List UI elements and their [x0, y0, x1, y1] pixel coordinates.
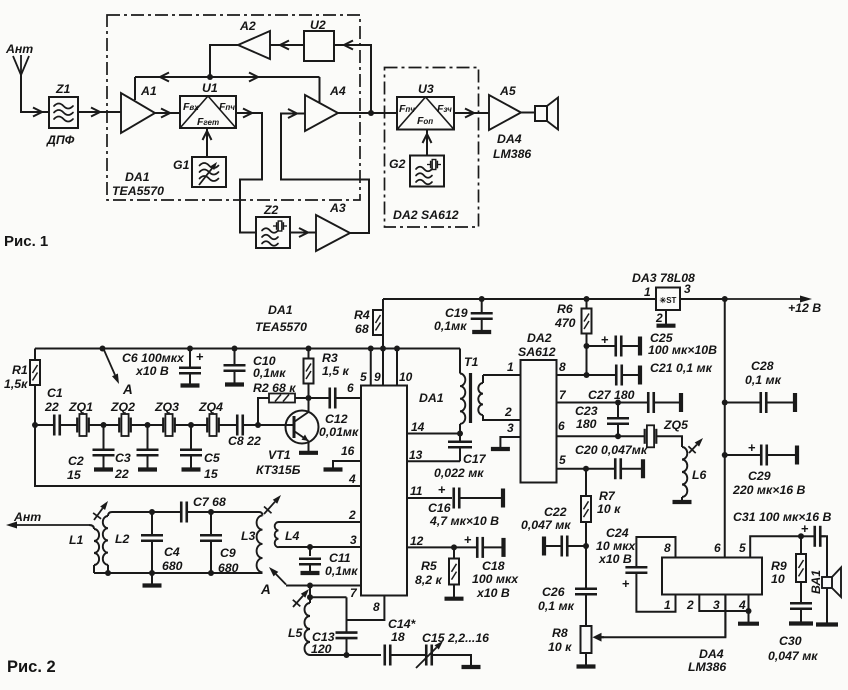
crystal ZQ1	[76, 418, 78, 433]
A arrow at heterodyne tank	[276, 574, 286, 584]
+12V vertical feed	[724, 299, 726, 558]
transistor VT1 КТ315Б	[286, 411, 319, 444]
svg-text:3: 3	[684, 282, 691, 296]
svg-text:С29: С29	[748, 469, 771, 483]
coil L5	[309, 597, 311, 603]
svg-text:U3: U3	[418, 82, 434, 96]
svg-text:1: 1	[507, 360, 514, 374]
wire Z1 to A1	[78, 111, 121, 113]
svg-text:+12 В: +12 В	[788, 301, 821, 315]
svg-text:С28: С28	[751, 359, 774, 373]
wire A4 to U3, output node	[338, 112, 397, 114]
svg-text:С14*: С14*	[388, 617, 417, 631]
svg-text:ZQ2: ZQ2	[110, 400, 135, 414]
svg-text:A1: A1	[140, 84, 157, 98]
svg-text:4: 4	[738, 598, 746, 612]
svg-text:Fпч: Fпч	[399, 103, 415, 115]
svg-text:L3: L3	[241, 529, 256, 543]
svg-text:Fзч: Fзч	[437, 103, 452, 115]
wire U3 to A5	[454, 112, 489, 114]
node R3/R2/C12/collector	[306, 395, 312, 401]
filter Z2	[256, 217, 290, 248]
svg-text:15: 15	[204, 467, 218, 481]
node to L5 and C13	[307, 583, 313, 589]
svg-text:0,022 мк: 0,022 мк	[434, 466, 484, 480]
DA3 78L08 box	[656, 288, 680, 311]
svg-text:10: 10	[399, 370, 413, 384]
svg-text:120: 120	[311, 642, 332, 656]
svg-text:0,1мк: 0,1мк	[253, 366, 286, 380]
resistor R4 68	[382, 299, 384, 310]
wire G1 to U1 (arrow up)	[206, 128, 208, 157]
svg-text:Fоп: Fоп	[417, 115, 433, 127]
resistor R2 68к	[258, 398, 269, 425]
svg-text:С16: С16	[428, 501, 451, 515]
capacitor C10 0,1мк	[232, 346, 238, 352]
svg-text:Fгет: Fгет	[197, 116, 219, 128]
wire A1 to U1	[155, 112, 180, 114]
capacitor C8 22	[236, 415, 239, 436]
node C3, capacitor C3 22	[145, 422, 151, 428]
svg-text:6: 6	[347, 381, 354, 395]
node A arrow near ZQ2	[100, 346, 106, 352]
svg-text:2: 2	[686, 598, 694, 612]
svg-text:Рис. 1: Рис. 1	[4, 233, 48, 250]
svg-text:0,1мк: 0,1мк	[325, 564, 358, 578]
svg-text:4,7 мк×10 В: 4,7 мк×10 В	[429, 514, 499, 528]
capacitor C25 100мкх10В	[587, 345, 617, 347]
svg-text:С8 22: С8 22	[228, 434, 261, 448]
pin 8 and C24 loop	[636, 537, 675, 567]
speaker (fig1)	[521, 112, 535, 114]
pin 5 wire of DA2 / node	[557, 468, 587, 470]
svg-text:R3: R3	[322, 351, 338, 365]
crystal filter input line y=425	[32, 422, 38, 428]
capacitor C11 0,1мк	[307, 544, 313, 550]
svg-text:LM386: LM386	[688, 660, 726, 674]
coil L2	[108, 512, 112, 516]
pin 4 ground	[748, 595, 750, 623]
svg-text:R4: R4	[354, 308, 370, 322]
wire R8 wiper to DA4 pin 3	[600, 595, 725, 638]
capacitor C31 100мкх16В	[798, 533, 804, 539]
pin 2 ground DA3	[665, 310, 667, 324]
svg-text:100 мк×10В: 100 мк×10В	[648, 343, 717, 357]
svg-text:х10 В: х10 В	[135, 364, 169, 378]
svg-text:+: +	[438, 482, 446, 497]
svg-text:0,1 мк: 0,1 мк	[538, 599, 575, 613]
svg-text:G1: G1	[173, 158, 190, 172]
svg-text:С6 100мкх: С6 100мкх	[122, 351, 185, 365]
oscillator G2	[410, 156, 444, 187]
svg-text:DA2 SA612: DA2 SA612	[393, 208, 459, 222]
pin 4 / long ground-return rail	[35, 425, 361, 486]
svg-text:DA4: DA4	[699, 647, 724, 661]
amplifier A4	[305, 95, 338, 131]
svg-text:С27 180: С27 180	[588, 388, 635, 402]
coil L6	[682, 447, 687, 497]
svg-text:0,1мк: 0,1мк	[434, 319, 467, 333]
svg-text:С26: С26	[542, 585, 565, 599]
capacitor C14* 18	[383, 645, 386, 666]
svg-text:С22: С22	[544, 505, 567, 519]
svg-text:3: 3	[713, 598, 720, 612]
svg-text:Ант: Ант	[5, 42, 33, 56]
wire ZQ5 to L6	[656, 436, 682, 447]
pin 3 wire down	[724, 595, 726, 638]
svg-text:14: 14	[411, 420, 425, 434]
pin 12 node	[407, 546, 454, 548]
svg-text:12: 12	[410, 534, 424, 548]
capacitor C7 68	[180, 502, 183, 523]
svg-text:U2: U2	[310, 18, 326, 32]
pin 2 wire and coil L4	[279, 521, 362, 523]
wire A2 output to node	[210, 45, 238, 77]
svg-text:3: 3	[350, 533, 357, 547]
svg-text:VT1: VT1	[268, 448, 291, 462]
svg-text:+: +	[464, 532, 472, 547]
resistor R3 1,5к	[306, 346, 312, 352]
svg-text:1: 1	[664, 598, 671, 612]
svg-text:0,047 мк: 0,047 мк	[768, 649, 818, 663]
capacitor C29 220мкх16В	[722, 452, 728, 458]
svg-text:8: 8	[373, 600, 380, 614]
svg-text:L5: L5	[288, 626, 303, 640]
capacitor C6 100мкх10В	[187, 346, 193, 352]
svg-text:1,5к: 1,5к	[4, 377, 28, 391]
capacitor C21 0,1мк	[587, 374, 617, 376]
supply rail 8V from R4 to DA3 (fig2)	[383, 298, 656, 300]
pin 8 wire / node	[557, 374, 587, 376]
crystal ZQ5	[644, 429, 646, 444]
svg-text:5: 5	[559, 453, 566, 467]
node C4, capacitor C4 680	[149, 509, 155, 515]
node R7 bottom / C22 / C26	[583, 543, 589, 549]
svg-text:L2: L2	[115, 532, 130, 546]
node R6 / C25	[584, 343, 590, 349]
tank top wire y=512	[112, 511, 182, 513]
svg-text:ZQ5: ZQ5	[663, 418, 688, 432]
coil L4	[275, 522, 279, 547]
svg-text:R2 68 к: R2 68 к	[253, 381, 296, 395]
svg-text:13: 13	[409, 448, 423, 462]
svg-text:Ант: Ант	[13, 510, 41, 524]
svg-text:10 к: 10 к	[548, 640, 572, 654]
pin 6 wire of DA2	[557, 435, 646, 437]
mixer U1	[180, 96, 236, 128]
svg-text:ZQ1: ZQ1	[68, 400, 93, 414]
svg-text:С24: С24	[606, 526, 629, 540]
capacitor C17 0,022мк	[459, 434, 461, 442]
svg-text:0,01мк: 0,01мк	[319, 425, 359, 439]
capacitor C26 0,1мк	[585, 546, 587, 588]
dash-dot box DA1 TEA5570 (fig1)	[107, 15, 360, 200]
svg-text:220 мк×16 В: 220 мк×16 В	[732, 483, 806, 497]
ground of tank	[151, 573, 153, 584]
svg-text:10: 10	[771, 572, 785, 586]
IC DA2 SA612 box	[521, 360, 557, 483]
svg-text:ZQ4: ZQ4	[198, 400, 223, 414]
svg-text:G2: G2	[389, 157, 406, 171]
svg-text:С31 100 мк×16 В: С31 100 мк×16 В	[733, 510, 832, 524]
capacitor C30 0,047мк	[800, 582, 802, 602]
svg-text:Fвх: Fвх	[183, 101, 199, 113]
pin 7 wire / C27 180	[557, 402, 619, 404]
svg-text:С30: С30	[779, 634, 802, 648]
wire Z2 to A3	[290, 232, 316, 234]
svg-text:8,2 к: 8,2 к	[415, 573, 443, 587]
svg-text:С15 2,2...16: С15 2,2...16	[422, 631, 489, 645]
coil L3	[259, 512, 263, 516]
dash-dot box DA2 SA612 (fig1)	[385, 68, 479, 228]
svg-text:С11: С11	[329, 551, 351, 565]
resistor R1 1,5к	[34, 349, 36, 361]
svg-text:ВА1: ВА1	[809, 570, 823, 594]
pin 3 wire	[279, 546, 362, 548]
svg-text:11: 11	[410, 484, 423, 498]
svg-text:С23: С23	[575, 404, 598, 418]
svg-text:8: 8	[559, 360, 566, 374]
svg-text:10 мкх: 10 мкх	[596, 539, 636, 553]
svg-text:6: 6	[558, 419, 565, 433]
svg-text:Т1: Т1	[464, 355, 479, 369]
+12V arrow	[725, 298, 800, 300]
pin 14 wire and node	[407, 433, 460, 435]
svg-text:LM386: LM386	[493, 147, 531, 161]
wire antenna to Z1 with arrow	[33, 108, 42, 117]
svg-text:ДПФ: ДПФ	[46, 133, 75, 147]
svg-text:680: 680	[162, 559, 183, 573]
pin 7 wire	[286, 585, 361, 587]
svg-text:1: 1	[644, 285, 651, 299]
coil L1	[89, 525, 94, 529]
capacitor C12 0,01мк	[309, 397, 330, 399]
svg-text:С17: С17	[463, 452, 487, 466]
svg-text:С20 0,047мк: С20 0,047мк	[575, 443, 648, 457]
node C9, capacitor C9 680	[208, 509, 214, 515]
svg-text:DA2: DA2	[527, 331, 552, 345]
wire U1 out, down to Z2	[236, 113, 262, 233]
capacitor C1 22	[53, 415, 56, 436]
svg-text:Рис. 2: Рис. 2	[7, 658, 56, 676]
node C5, capacitor C5 15	[188, 422, 194, 428]
capacitor C23 180	[617, 403, 619, 418]
capacitor C24 10мкх10В	[625, 566, 647, 569]
svg-text:4: 4	[348, 472, 356, 486]
svg-text:Z2: Z2	[263, 203, 279, 217]
svg-text:+: +	[622, 576, 630, 591]
svg-text:R8: R8	[552, 626, 568, 640]
svg-text:A: A	[260, 582, 271, 597]
resistor R6 470	[584, 296, 590, 302]
IC DA4 LM386 box	[662, 558, 762, 595]
svg-text:L6: L6	[692, 468, 707, 482]
svg-text:8: 8	[664, 541, 671, 555]
svg-text:✳SТ: ✳SТ	[660, 296, 677, 305]
svg-text:х10 В: х10 В	[476, 586, 510, 600]
wire G2 to U3 (arrow up)	[426, 130, 428, 156]
svg-text:A2: A2	[239, 19, 256, 33]
svg-text:22: 22	[44, 400, 59, 414]
svg-text:КТ315Б: КТ315Б	[256, 463, 301, 477]
svg-text:16: 16	[341, 444, 355, 458]
svg-text:1,5 к: 1,5 к	[322, 364, 350, 378]
trimmer capacitor C15 2,2...16	[425, 645, 428, 666]
AGC feedback line (node)	[135, 76, 320, 78]
pins 5 9 10 top of DA1	[368, 346, 374, 352]
svg-text:9: 9	[374, 370, 381, 384]
crystal ZQ4	[191, 424, 208, 426]
pins 2 and 4 ground wire	[699, 595, 748, 612]
svg-text:15: 15	[67, 468, 81, 482]
capacitor C28 0,1мк	[722, 400, 728, 406]
svg-text:С19: С19	[445, 306, 468, 320]
wire U2 to A2	[270, 44, 304, 46]
svg-text:68: 68	[355, 322, 369, 336]
svg-text:470: 470	[554, 316, 576, 330]
svg-text:R7: R7	[599, 489, 616, 503]
svg-text:A5: A5	[499, 84, 516, 98]
svg-text:L4: L4	[285, 529, 300, 543]
crystal ZQ3	[148, 424, 164, 426]
svg-text:2: 2	[655, 311, 663, 325]
pin 16 ground of DA1	[333, 461, 361, 468]
amplifier A1	[121, 93, 155, 133]
resistor R9 10	[800, 536, 802, 554]
svg-text:С21 0,1 мк: С21 0,1 мк	[650, 361, 713, 375]
svg-text:3: 3	[507, 421, 514, 435]
trimmer arrow L1-L2	[94, 508, 103, 520]
svg-text:A4: A4	[329, 84, 346, 98]
svg-text:С12: С12	[325, 412, 348, 426]
pin 8 wire of DA1	[347, 596, 385, 621]
svg-text:7: 7	[559, 388, 567, 402]
svg-text:+: +	[196, 349, 204, 364]
tank bottom wire	[94, 572, 263, 574]
figure 1 antenna symbol	[21, 75, 49, 112]
svg-text:7: 7	[350, 586, 358, 600]
wire output node to U2	[334, 45, 371, 113]
capacitor C18 100мкх10В	[454, 546, 479, 548]
svg-text:+: +	[748, 440, 756, 455]
svg-text:Fпч: Fпч	[219, 101, 235, 113]
amplifier A3	[316, 215, 350, 251]
IC DA1 TEA5570 box	[361, 386, 407, 596]
svg-text:С2: С2	[68, 454, 84, 468]
svg-text:ТЕА5570: ТЕА5570	[112, 184, 164, 198]
svg-text:С18: С18	[482, 559, 505, 573]
capacitor C13 120	[346, 597, 348, 632]
antenna arrow fig2	[17, 524, 89, 526]
resistor R5 8,2к	[453, 547, 455, 558]
pin 13 wire	[407, 460, 460, 462]
svg-text:С3: С3	[115, 451, 131, 465]
pin 3 wire DA3 / +12V node	[680, 298, 725, 300]
svg-text:С9: С9	[220, 546, 236, 560]
svg-text:DA1: DA1	[419, 391, 444, 405]
DA1 supply rail y=348.5	[35, 348, 460, 350]
svg-text:R6: R6	[557, 302, 573, 316]
svg-text:+: +	[601, 332, 609, 347]
svg-text:2: 2	[348, 508, 356, 522]
svg-text:DA4: DA4	[497, 132, 522, 146]
trimmer arrow L6	[689, 445, 697, 453]
svg-text:18: 18	[391, 630, 405, 644]
svg-text:DA1: DA1	[125, 170, 150, 184]
svg-text:2: 2	[504, 405, 512, 419]
amplifier A2 (points left)	[238, 31, 270, 59]
resistor R7 10к	[585, 469, 587, 496]
svg-text:С7 68: С7 68	[193, 495, 226, 509]
svg-text:5: 5	[360, 370, 367, 384]
svg-text:DA1: DA1	[268, 303, 293, 317]
capacitor C22 0,047мк	[542, 537, 546, 556]
svg-text:С4: С4	[164, 545, 180, 559]
svg-text:ZQ3: ZQ3	[154, 400, 179, 414]
pin 5 wire of DA4	[750, 536, 801, 557]
svg-text:L1: L1	[69, 533, 84, 547]
svg-text:R1: R1	[12, 363, 28, 377]
amplifier A5	[489, 95, 521, 130]
svg-text:х10 В: х10 В	[598, 552, 632, 566]
svg-text:ТЕА5570: ТЕА5570	[255, 320, 307, 334]
trimmer arrow L3	[264, 502, 275, 514]
svg-text:180: 180	[576, 417, 597, 431]
svg-text:R5: R5	[421, 559, 437, 573]
svg-text:6: 6	[714, 541, 721, 555]
svg-text:22: 22	[114, 467, 129, 481]
svg-text:R9: R9	[771, 559, 787, 573]
svg-text:С5: С5	[204, 451, 220, 465]
block U2	[304, 31, 334, 61]
mixer U3	[397, 97, 454, 130]
svg-text:100 мкх: 100 мкх	[472, 572, 519, 586]
capacitor C20 0,047мк	[586, 468, 615, 470]
wire A3 back up to A4 input	[281, 114, 369, 234]
svg-text:С1: С1	[47, 386, 63, 400]
node base / wire to VT1	[255, 422, 261, 428]
oscillator G1	[192, 157, 226, 187]
pin 11 capacitor C16 4,7мк	[407, 497, 452, 499]
svg-text:10 к: 10 к	[597, 502, 621, 516]
pin 3 ground of DA2	[500, 437, 520, 448]
svg-text:0,1 мк: 0,1 мк	[745, 373, 782, 387]
node C2, capacitor C2 15	[101, 422, 107, 428]
trimmer arrow L5	[293, 596, 303, 607]
svg-text:SA612: SA612	[518, 345, 556, 359]
svg-text:5: 5	[739, 541, 746, 555]
capacitor C19 0,1мк	[479, 296, 485, 302]
potentiometer R8 10к	[581, 626, 592, 653]
heterodyne bottom wire	[310, 654, 381, 656]
filter Z1	[49, 97, 78, 128]
crystal ZQ2	[104, 424, 120, 426]
svg-text:A: A	[122, 382, 133, 397]
svg-text:Z1: Z1	[55, 82, 71, 96]
transformer T1 to pin 14	[459, 349, 461, 374]
svg-text:U1: U1	[202, 81, 218, 95]
svg-text:0,047 мк: 0,047 мк	[521, 518, 571, 532]
svg-text:A3: A3	[329, 201, 346, 215]
